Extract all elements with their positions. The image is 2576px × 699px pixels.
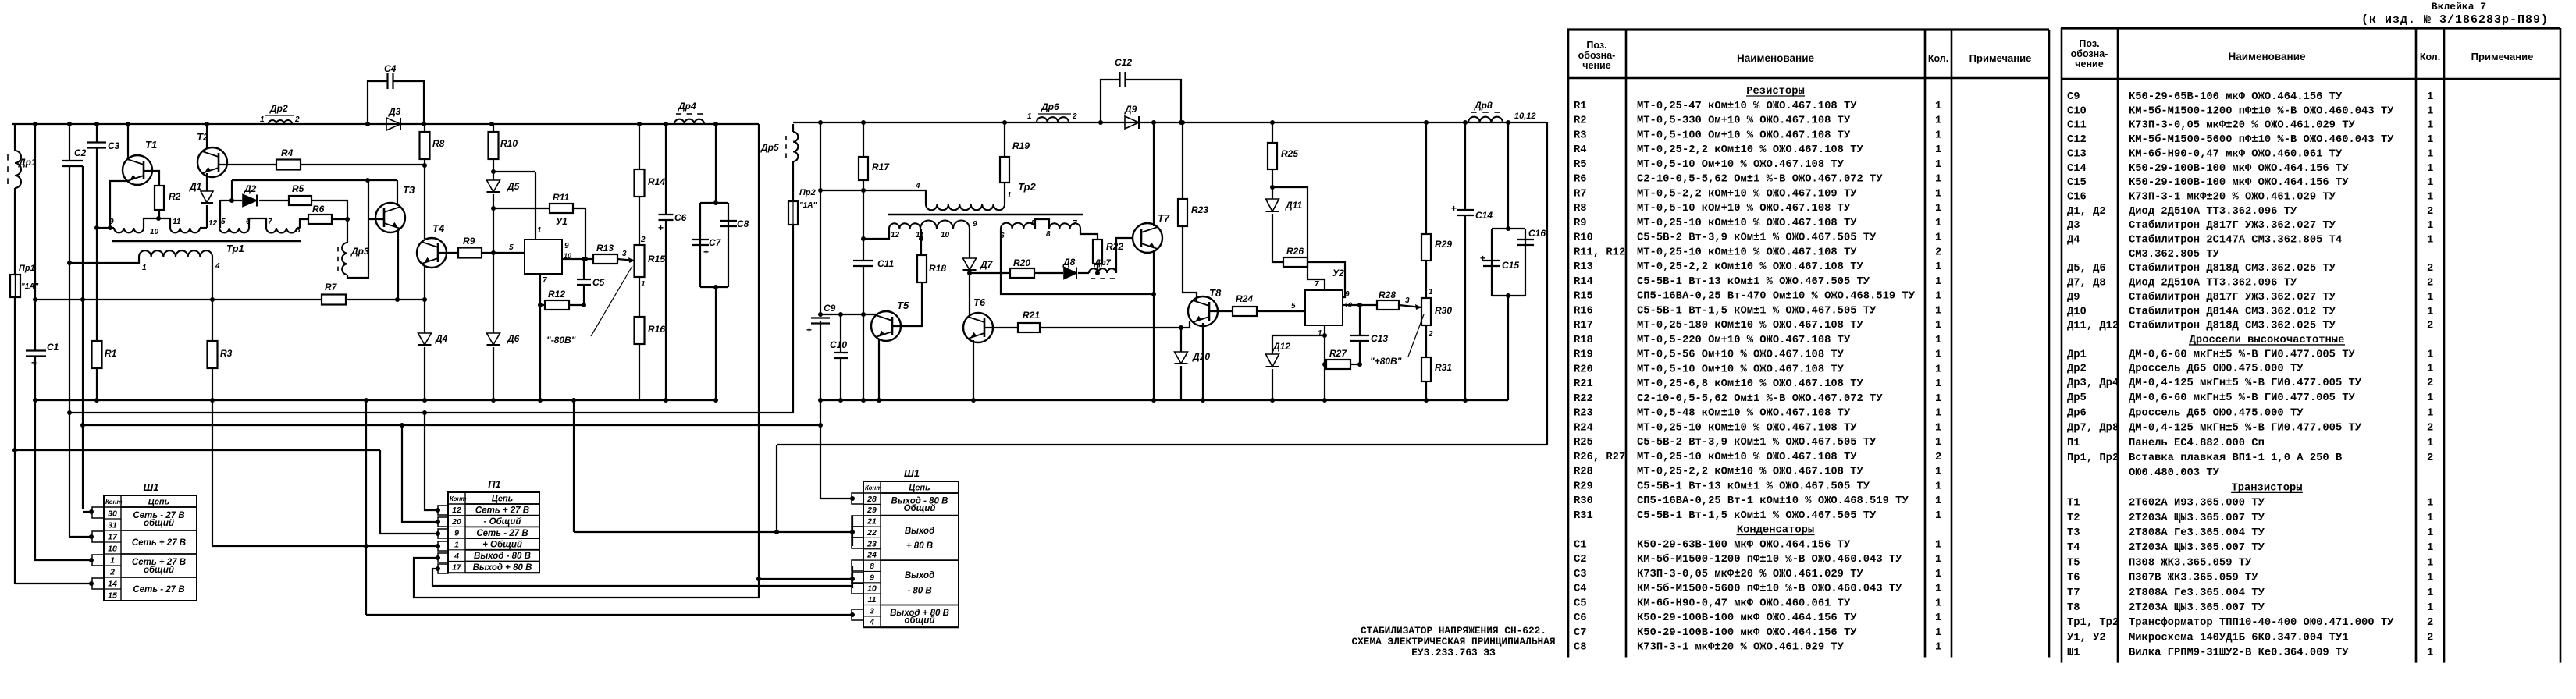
svg-text:Д2: Д2 (244, 183, 257, 194)
resistor R9 (458, 248, 482, 258)
resistor R19 (1000, 157, 1009, 183)
wire R28 to R30 (1399, 304, 1421, 310)
svg-text:9: 9 (973, 220, 977, 229)
label Pr1 (19, 264, 39, 291)
svg-text:22: 22 (866, 528, 877, 538)
label T4 (432, 222, 445, 234)
wire R27 right (1350, 364, 1360, 365)
svg-text:R27: R27 (1329, 348, 1347, 359)
wire pin9 lead (97, 227, 114, 229)
svg-text:ДМ-0,6-60 мкГн±5 %-В ГИ0.477.0: ДМ-0,6-60 мкГн±5 %-В ГИ0.477.005 ТУ (2129, 349, 2356, 360)
svg-text:1: 1 (1935, 642, 1941, 654)
capacitor C16 (1517, 240, 1534, 245)
svg-text:К50-29-63В-100 мкФ ОЖО.464.156: К50-29-63В-100 мкФ ОЖО.464.156 ТУ (1637, 539, 1851, 551)
svg-text:1: 1 (2427, 587, 2433, 599)
svg-text:С13: С13 (1371, 333, 1388, 344)
wire R8 rail (424, 124, 425, 239)
wire y682 to Sh1M (574, 531, 852, 533)
label pin1 U2 (1318, 329, 1322, 338)
svg-text:Др6: Др6 (2067, 407, 2087, 419)
svg-text:К73П-3-0,05 мкФ±20 % ОЖО.461.0: К73П-3-0,05 мкФ±20 % ОЖО.461.029 ТУ (1637, 569, 1864, 580)
wire T4 base to R9 (439, 252, 458, 254)
svg-text:12: 12 (452, 506, 461, 515)
svg-text:"1А": "1А" (799, 201, 817, 210)
wire T3 collector (397, 180, 398, 206)
svg-text:Примечание: Примечание (2471, 51, 2534, 62)
wire R11 right drop (573, 208, 585, 259)
resistor R14 (635, 169, 645, 197)
label C12 (1115, 57, 1132, 68)
svg-text:Д5: Д5 (507, 181, 520, 192)
wire C4 loop left (368, 81, 387, 124)
wire C1 rail (34, 124, 36, 350)
wire T8 base to R24 (1210, 310, 1233, 312)
svg-text:3: 3 (1405, 296, 1410, 305)
svg-text:1: 1 (1935, 627, 1941, 639)
resistor R11 (550, 204, 573, 213)
resistor R5 (289, 196, 311, 205)
svg-text:7: 7 (1315, 280, 1319, 289)
wire tap8 riser (297, 227, 300, 229)
winding Tr2 sec 11-9 (920, 221, 970, 229)
capacitor C1 (26, 351, 46, 369)
svg-text:1: 1 (1935, 481, 1941, 492)
connector P1 table (448, 478, 539, 573)
wire T2 base to R4 (219, 164, 276, 165)
svg-text:Трансформатор ТПП10-40-400 ОЮ0: Трансформатор ТПП10-40-400 ОЮ0.471.000 Т… (2129, 616, 2394, 629)
svg-text:Наименование: Наименование (1737, 52, 1815, 64)
svg-text:- 80 В: - 80 В (907, 586, 931, 595)
svg-text:Выход: Выход (905, 571, 934, 580)
label 4 Tr2 (915, 182, 920, 190)
svg-text:1: 1 (1935, 554, 1941, 566)
wire D10 bottom (1180, 366, 1182, 400)
svg-text:1: 1 (2427, 177, 2433, 189)
connector Sh1 middle pin stubs (852, 493, 863, 620)
wire D5 top junction to pin1 (493, 171, 535, 172)
svg-text:1: 1 (2427, 349, 2433, 360)
svg-text:1: 1 (1429, 288, 1433, 296)
svg-text:С15: С15 (2067, 177, 2087, 189)
svg-text:ОЮ0.480.003 ТУ: ОЮ0.480.003 ТУ (2129, 467, 2220, 479)
resistor R10 (489, 132, 499, 159)
svg-text:7: 7 (268, 218, 272, 226)
svg-text:С5-5В-1 Вт-1,5 кОм±1 % ОЖО.467: С5-5В-1 Вт-1,5 кОм±1 % ОЖО.467.505 ТУ (1637, 305, 1877, 317)
label T1 (145, 139, 157, 151)
svg-text:2: 2 (2427, 632, 2433, 644)
svg-text:С10: С10 (2067, 105, 2087, 117)
svg-text:2: 2 (2427, 263, 2433, 275)
label R29 (1435, 239, 1452, 250)
svg-text:10,12: 10,12 (1514, 112, 1536, 121)
svg-text:2: 2 (2427, 206, 2433, 218)
svg-text:Т1: Т1 (2067, 498, 2080, 509)
label Dr5 (760, 142, 779, 153)
svg-text:R4: R4 (281, 147, 294, 158)
svg-text:Др6: Др6 (1041, 101, 1059, 112)
transformer Tr1 core (112, 240, 301, 243)
svg-text:6: 6 (1000, 232, 1005, 240)
svg-text:R17: R17 (1574, 320, 1593, 332)
label D12 (1272, 341, 1290, 352)
svg-text:R5: R5 (1574, 159, 1587, 171)
capacitor C7 (692, 240, 709, 257)
wire D1 to tap12 (206, 205, 208, 228)
capacitor C14 (1451, 203, 1474, 215)
label C5 (592, 277, 605, 288)
svg-text:1: 1 (2427, 120, 2433, 132)
svg-text:R31: R31 (1435, 362, 1452, 373)
wire R14 rail top (639, 124, 640, 169)
svg-text:К50-29-100В-100 мкФ ОЖО.464.15: К50-29-100В-100 мкФ ОЖО.464.156 ТУ (1637, 612, 1857, 624)
svg-text:Выход: Выход (905, 527, 934, 536)
resistor R8 (420, 132, 430, 159)
svg-text:1: 1 (1935, 232, 1941, 244)
svg-text:R23: R23 (1574, 408, 1593, 420)
svg-text:Выход - 80 В: Выход - 80 В (474, 552, 531, 561)
svg-text:КМ-6б-Н90-0,47 мкФ ОЖО.460.061: КМ-6б-Н90-0,47 мкФ ОЖО.460.061 ТУ (2129, 147, 2343, 160)
svg-text:2Т808А Ге3.365.004 ТУ: 2Т808А Ге3.365.004 ТУ (2129, 527, 2265, 539)
wire R26 to U2 pin9 (1308, 262, 1345, 297)
wire tap58 plateau (1035, 219, 1049, 229)
label R3 (220, 348, 233, 359)
svg-text:обозна-: обозна- (1578, 50, 1616, 61)
svg-text:R26, R27: R26, R27 (1574, 452, 1625, 463)
svg-text:R10: R10 (1574, 232, 1593, 244)
svg-text:1: 1 (1935, 393, 1941, 405)
wire Sh1M pin28 lead (820, 498, 852, 499)
svg-text:Д10: Д10 (2067, 306, 2087, 318)
svg-text:4: 4 (215, 262, 220, 271)
capacitor C6 (658, 215, 674, 233)
label +80V with pointer (1370, 314, 1424, 367)
svg-text:R6: R6 (1574, 174, 1587, 186)
svg-text:R19: R19 (1012, 140, 1030, 151)
svg-text:общий: общий (905, 616, 935, 626)
svg-text:К73П-3-1 мкФ±20 % ОЖО.461.029: К73П-3-1 мкФ±20 % ОЖО.461.029 ТУ (1637, 642, 1845, 654)
label C7 (709, 237, 722, 248)
fuse Pr2 (788, 201, 798, 225)
svg-text:9: 9 (454, 529, 459, 538)
svg-text:Т8: Т8 (2067, 602, 2080, 614)
svg-text:+: + (1480, 253, 1485, 264)
label 12 (208, 219, 218, 228)
svg-text:С1: С1 (47, 342, 59, 353)
winding Tr2 sec 6-5 (1001, 223, 1035, 229)
wire P1 pin17 loop (432, 569, 852, 586)
label C14 (1475, 210, 1493, 221)
svg-text:1: 1 (2427, 542, 2433, 554)
svg-text:СХЕМА ЭЛЕКТРИЧЕСКАЯ ПРИНЦИПИАЛ: СХЕМА ЭЛЕКТРИЧЕСКАЯ ПРИНЦИПИАЛЬНАЯ (1351, 636, 1555, 648)
svg-text:R21: R21 (1574, 378, 1593, 390)
label T7 (1158, 212, 1170, 224)
svg-text:С8: С8 (1574, 642, 1587, 654)
svg-text:Д1, Д2: Д1, Д2 (2067, 206, 2106, 218)
resistor R22 (1093, 240, 1102, 264)
svg-text:2Т808А Ге3.365.004 ТУ: 2Т808А Ге3.365.004 ТУ (2129, 587, 2265, 599)
svg-text:Сеть - 27 В: Сеть - 27 В (476, 529, 528, 538)
resistor R12 (545, 300, 569, 310)
svg-text:Вилка ГРПМ9-31ШУ2-В Ке0.364.00: Вилка ГРПМ9-31ШУ2-В Ке0.364.009 ТУ (2129, 648, 2349, 659)
wire D2 R5 row (220, 200, 289, 201)
svg-text:24: 24 (866, 551, 877, 560)
capacitor C15 (1480, 253, 1500, 266)
connector Sh1 left table (104, 481, 197, 601)
svg-text:2: 2 (2427, 321, 2433, 332)
label R30 (1435, 305, 1452, 316)
svg-text:R1: R1 (1574, 101, 1587, 112)
label D10 (1192, 351, 1210, 362)
svg-text:R25: R25 (1281, 148, 1298, 159)
svg-text:К73П-3-1 мкФ±20 % ОЖО.461.029: К73П-3-1 мкФ±20 % ОЖО.461.029 ТУ (2129, 191, 2336, 203)
svg-text:К50-29-100В-100 мкФ ОЖО.464.15: К50-29-100В-100 мкФ ОЖО.464.156 ТУ (1637, 627, 1857, 639)
svg-text:Цепь: Цепь (909, 484, 930, 493)
capacitor C8 (720, 221, 737, 226)
svg-text:МТ-0,5-330 Ом+10 % ОЖО.467.108: МТ-0,5-330 Ом+10 % ОЖО.467.108 ТУ (1637, 115, 1851, 127)
resistor R27 (1326, 360, 1350, 369)
svg-text:1: 1 (1935, 203, 1941, 215)
wire node297 drop (231, 180, 233, 200)
label R4 (281, 147, 294, 158)
svg-text:Стабилитрон Д814А СМ3.362.012: Стабилитрон Д814А СМ3.362.012 ТУ (2129, 305, 2336, 318)
resistor R31 (1421, 357, 1431, 381)
svg-text:1: 1 (1935, 467, 1941, 478)
label C11 (877, 258, 894, 269)
resistor R4 (276, 160, 301, 170)
sheet subtitle (2361, 13, 2549, 27)
svg-text:СП5-16ВА-0,25 Вт-470 Ом±10 % О: СП5-16ВА-0,25 Вт-470 Ом±10 % ОЖО.468.519… (1637, 291, 1916, 303)
capacitor C11 (853, 261, 873, 266)
svg-text:1: 1 (1318, 329, 1322, 338)
label R25 (1281, 148, 1298, 159)
svg-text:R17: R17 (872, 161, 890, 172)
op-amp U2 (1305, 290, 1343, 325)
svg-text:Д3: Д3 (388, 106, 401, 117)
inductor Dr7 (1089, 268, 1116, 279)
svg-text:Др5: Др5 (2067, 392, 2087, 404)
wire T2 emitter (206, 173, 208, 191)
svg-text:R11: R11 (553, 192, 569, 203)
svg-text:СМ3.362.805 ТУ: СМ3.362.805 ТУ (2129, 249, 2220, 261)
wire T8 emitter (1202, 323, 1204, 400)
svg-text:R8: R8 (432, 138, 445, 149)
wire D12 bottom (1272, 369, 1273, 400)
svg-text:1: 1 (1935, 378, 1941, 390)
svg-text:+: + (703, 247, 709, 257)
transistor T1 (123, 155, 152, 185)
svg-text:1: 1 (2427, 220, 2433, 232)
label R31 (1435, 362, 1452, 373)
resistor R28 (1377, 300, 1399, 310)
label 4 (215, 262, 220, 271)
svg-text:1: 1 (1935, 115, 1941, 127)
svg-text:Стабилитрон Д817Г УЖ3.362.027: Стабилитрон Д817Г УЖ3.362.027 ТУ (2129, 291, 2336, 303)
inductor Dr6 (1037, 114, 1071, 122)
svg-text:Вставка плавкая ВП1-1 1,0 А 25: Вставка плавкая ВП1-1 1,0 А 250 В (2129, 452, 2342, 464)
svg-text:R14: R14 (648, 176, 665, 187)
winding Tr1 primary (139, 250, 212, 257)
wire D11 to R26 (1272, 214, 1283, 262)
svg-text:Конт: Конт (450, 495, 466, 502)
svg-text:2: 2 (2427, 452, 2433, 464)
svg-text:2Т203А ЩЫ3.365.007 ТУ: 2Т203А ЩЫ3.365.007 ТУ (2129, 542, 2265, 554)
svg-text:10: 10 (941, 231, 950, 240)
wire left section right rail (758, 124, 760, 579)
resistor R26 (1283, 257, 1308, 267)
wire T1 collector (127, 124, 129, 158)
svg-text:+: + (806, 325, 812, 335)
svg-text:3: 3 (870, 606, 874, 616)
label Dr3 (350, 246, 369, 257)
svg-text:9: 9 (109, 218, 114, 226)
wire T7 collector (1153, 122, 1155, 226)
svg-text:1: 1 (2427, 235, 2433, 247)
svg-text:С14: С14 (2067, 163, 2087, 175)
svg-text:7: 7 (1073, 219, 1077, 228)
capacitor C4 (388, 73, 393, 89)
svg-text:Выход + 80 В: Выход + 80 В (473, 563, 532, 573)
svg-text:R16: R16 (1574, 305, 1593, 317)
resistor R3 (208, 341, 218, 368)
svg-text:МТ-0,25-2,2 кОм±10 % ОЖО.467.1: МТ-0,25-2,2 кОм±10 % ОЖО.467.108 ТУ (1637, 467, 1864, 478)
svg-text:1: 1 (2427, 191, 2433, 203)
wire tap9 to D7 (969, 229, 970, 258)
svg-text:С2: С2 (1574, 554, 1587, 566)
diode D2 (243, 195, 257, 207)
svg-text:(к изд. № 3/186283р-П89): (к изд. № 3/186283р-П89) (2361, 13, 2549, 27)
svg-text:Др1: Др1 (18, 157, 37, 168)
svg-text:R7: R7 (1574, 188, 1587, 200)
wire bus to Dr5 (792, 124, 794, 132)
svg-text:Т7: Т7 (2067, 587, 2080, 599)
wire R15 to R16 (639, 277, 640, 317)
wire U1 pin7 rail (539, 275, 541, 400)
svg-text:R11, R12: R11, R12 (1574, 247, 1625, 258)
wire tap11 (920, 229, 922, 255)
wire R5 right to Dr3 (311, 200, 347, 243)
svg-text:КМ-5б-М1500-1200 пФ±10 %-В ОЖО: КМ-5б-М1500-1200 пФ±10 %-В ОЖО.460.043 Т… (1637, 553, 1902, 566)
label D3 (388, 106, 401, 117)
label pin5 U2 (1291, 302, 1296, 310)
wire top bus right section (793, 122, 1547, 123)
svg-text:Д5, Д6: Д5, Д6 (2067, 263, 2106, 275)
label R10 (500, 138, 518, 149)
svg-text:2: 2 (1935, 247, 1941, 258)
label T3 (403, 184, 415, 196)
label 3 wiper (622, 250, 627, 258)
wire C15C16 box (1492, 229, 1525, 296)
resistor R30 potentiometer (1421, 298, 1431, 325)
svg-text:1: 1 (2427, 407, 2433, 419)
svg-text:Сеть + 27 В: Сеть + 27 В (132, 538, 186, 548)
winding Tr2 sec 12-11 (889, 223, 920, 229)
svg-text:МТ-0,5-48 кОм±10 % ОЖО.467.108: МТ-0,5-48 кОм±10 % ОЖО.467.108 ТУ (1637, 408, 1851, 420)
wire x735 riser (573, 400, 575, 532)
label R1 (105, 348, 117, 359)
svg-text:R22: R22 (1106, 241, 1123, 252)
wire R29 rail top (1425, 122, 1427, 234)
svg-text:2: 2 (640, 236, 646, 244)
svg-text:П307В ЖК3.365.059 ТУ: П307В ЖК3.365.059 ТУ (2129, 573, 2258, 584)
svg-text:П308 ЖК3.365.059 ТУ: П308 ЖК3.365.059 ТУ (2129, 557, 2252, 569)
label 9t (973, 220, 977, 229)
label R28 (1379, 289, 1396, 300)
svg-text:1: 1 (2427, 438, 2433, 449)
label C15 (1502, 260, 1519, 271)
svg-text:9: 9 (1345, 290, 1350, 299)
svg-text:1: 1 (1935, 584, 1941, 595)
svg-text:+ 80 В: + 80 В (906, 541, 933, 551)
svg-text:С5-5В-2 Вт-3,9 кОм±1 % ОЖО.467: С5-5В-2 Вт-3,9 кОм±1 % ОЖО.467.505 ТУ (1637, 232, 1877, 244)
winding Tr2 sec 8-7 (1049, 223, 1080, 229)
label R17 (872, 161, 890, 172)
svg-text:R29: R29 (1574, 481, 1593, 492)
label R13 (596, 243, 614, 254)
svg-text:1: 1 (2427, 513, 2433, 524)
label D9 (1124, 104, 1137, 115)
svg-text:ДМ-0,4-125 мкГн±5 %-В ГИ0.477.: ДМ-0,4-125 мкГн±5 %-В ГИ0.477.005 ТУ (2129, 378, 2362, 389)
wire T4 emitter to D4 (424, 265, 425, 333)
svg-text:Поз.: Поз. (1586, 40, 1606, 51)
svg-text:Др7: Др7 (1094, 258, 1112, 268)
svg-text:С7: С7 (709, 237, 722, 248)
svg-text:С16: С16 (2067, 191, 2087, 203)
svg-text:1: 1 (1935, 130, 1941, 141)
wire bottom bus left section (35, 399, 716, 401)
connector Sh1 left pin stubs (92, 507, 104, 589)
svg-text:R25: R25 (1574, 437, 1593, 449)
label C1 (47, 342, 59, 353)
svg-text:3: 3 (622, 250, 627, 258)
svg-text:18: 18 (108, 545, 117, 554)
svg-text:R28: R28 (1574, 467, 1593, 478)
wire R23 to T8 collector (1183, 226, 1197, 301)
wire left input rail (14, 124, 16, 584)
diode D5 (487, 180, 500, 192)
svg-text:1: 1 (1935, 437, 1941, 449)
svg-text:R12: R12 (548, 289, 565, 300)
label 7t (1073, 219, 1077, 228)
label R20 (1013, 257, 1030, 268)
resistor R29 (1421, 234, 1431, 261)
wire P1 pin4 loop (414, 558, 759, 598)
svg-text:1: 1 (2427, 527, 2433, 539)
svg-text:МТ-0,25-6,8 кОм±10 % ОЖО.467.1: МТ-0,25-6,8 кОм±10 % ОЖО.467.108 ТУ (1637, 378, 1864, 390)
label R7 (325, 282, 338, 293)
svg-text:П1: П1 (2067, 438, 2080, 449)
svg-text:R15: R15 (648, 254, 665, 264)
transistor T5 (871, 311, 901, 341)
svg-text:1: 1 (2427, 498, 2433, 509)
svg-text:"1А": "1А" (21, 282, 39, 291)
transistor T4 (417, 238, 447, 268)
resistor R15 potentiometer (635, 245, 645, 277)
label U2 (1332, 268, 1344, 279)
wire y570 drop (776, 445, 777, 532)
svg-text:1: 1 (260, 115, 265, 124)
diode D8 (1064, 268, 1076, 279)
wire R29 to R30 (1425, 261, 1427, 298)
caption line2 (1351, 636, 1555, 648)
label 1 Tr2 (1007, 191, 1012, 200)
wire y384 (35, 299, 425, 300)
wire R25 to D11 (1272, 169, 1273, 199)
wire tap10 plateau (144, 218, 170, 228)
svg-text:9: 9 (870, 573, 874, 582)
svg-text:С6: С6 (674, 212, 687, 223)
svg-text:Д7, Д8: Д7, Д8 (2067, 278, 2106, 289)
svg-text:R18: R18 (1574, 335, 1593, 346)
